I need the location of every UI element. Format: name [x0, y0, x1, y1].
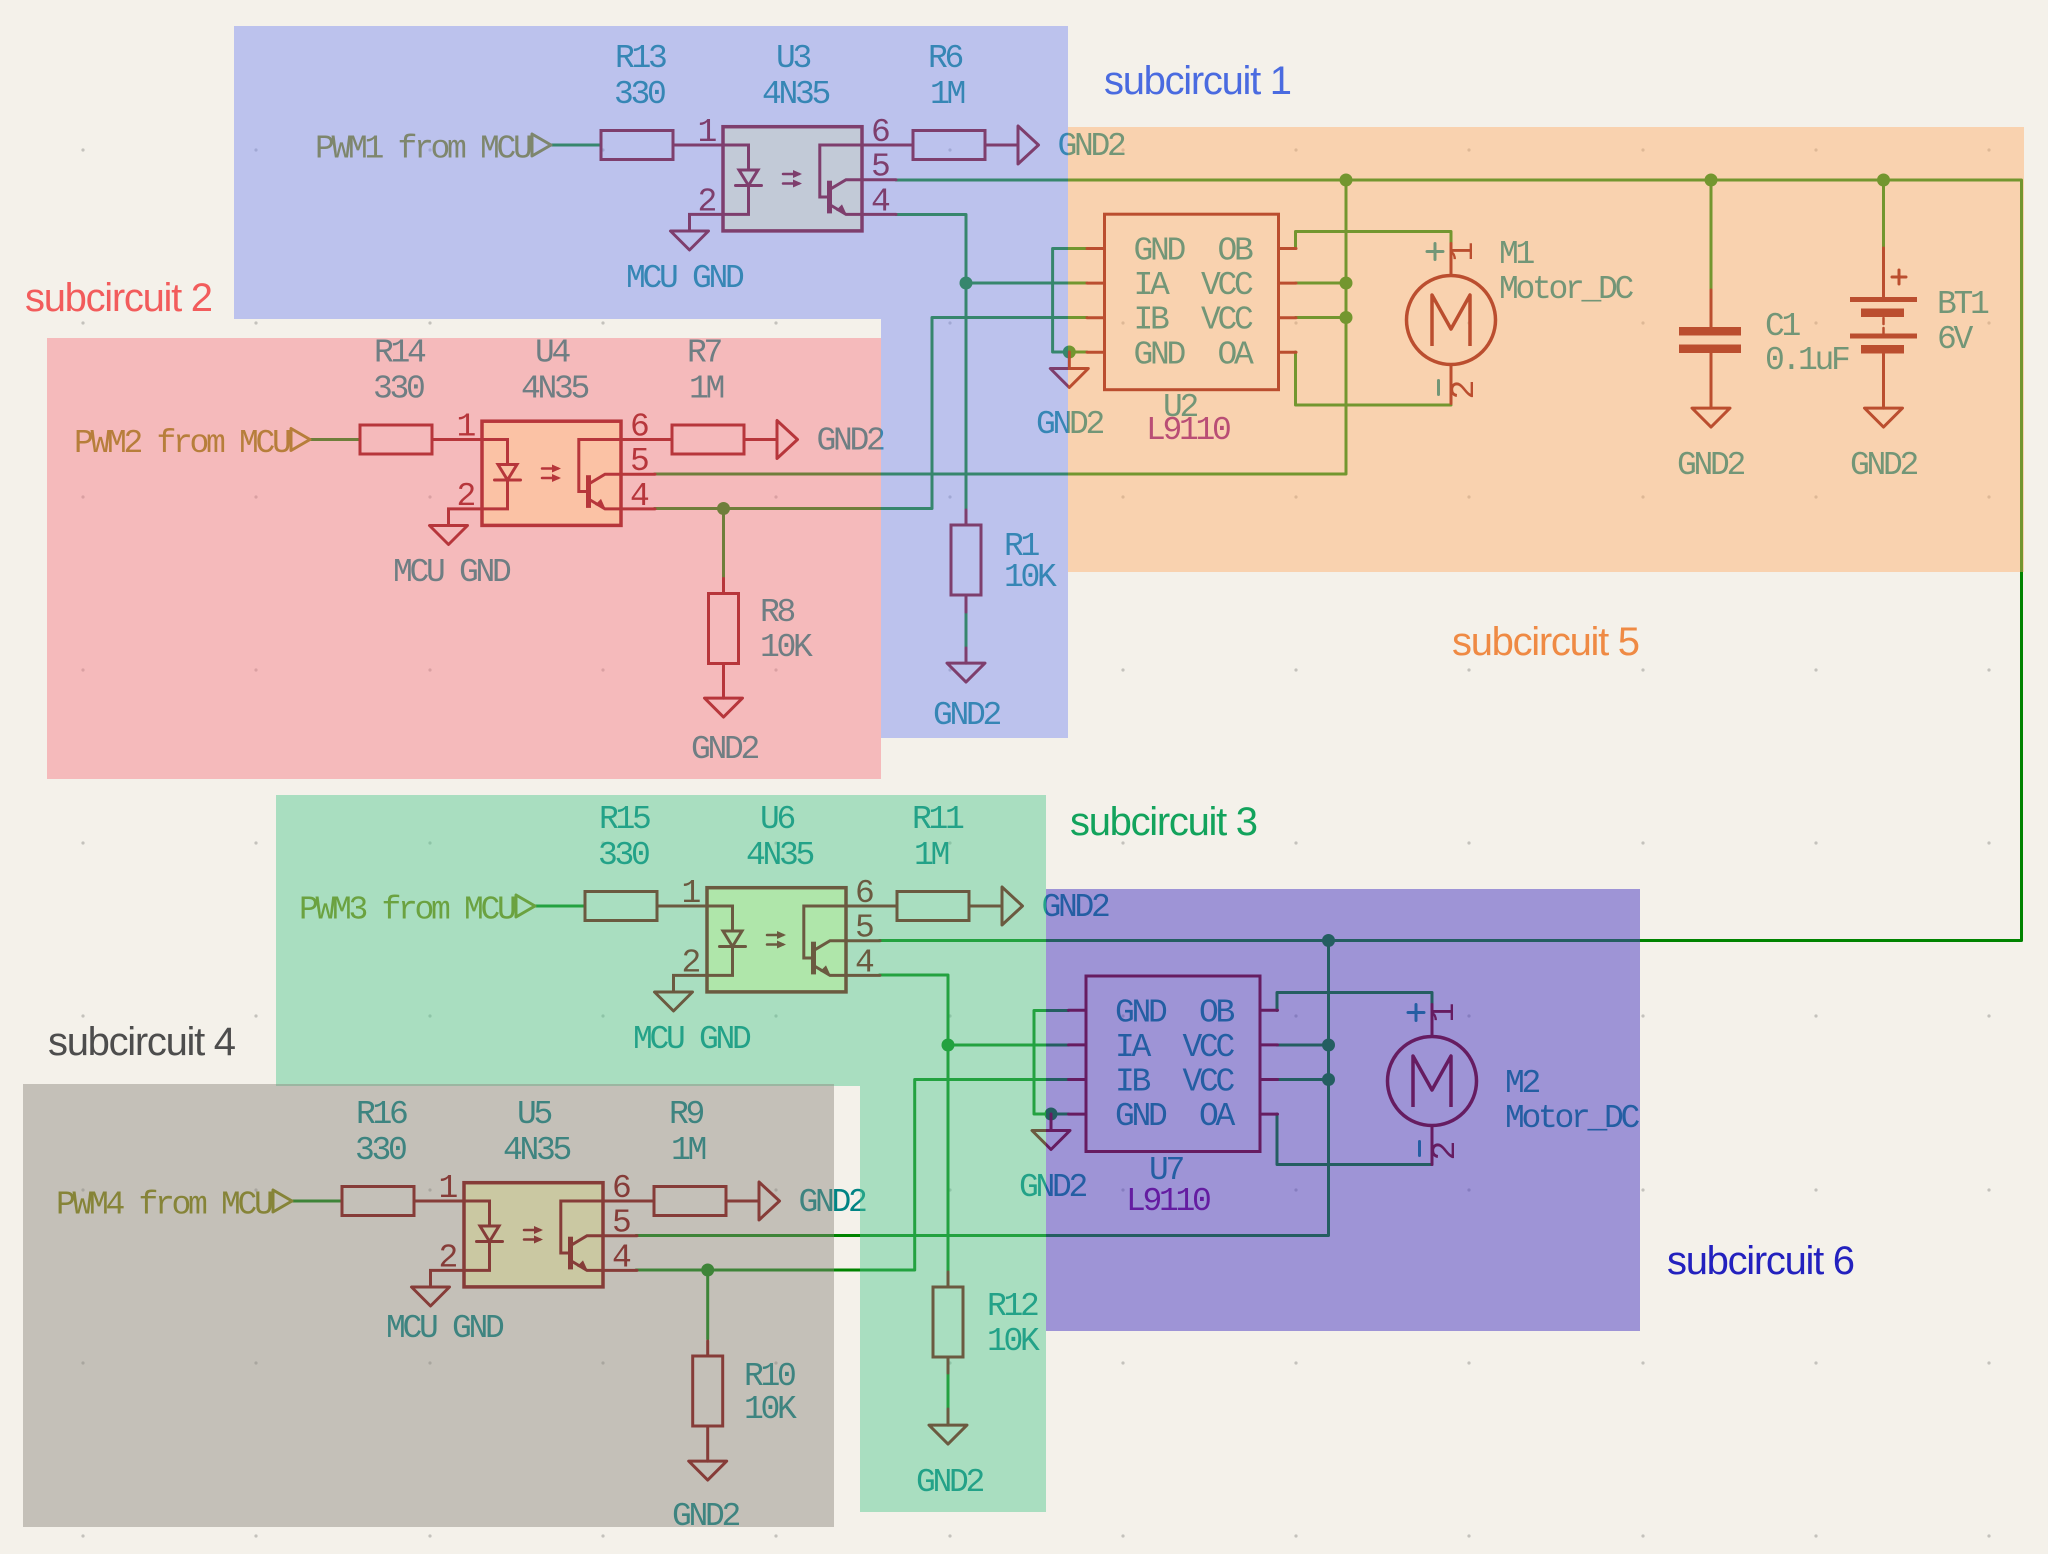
- U3 pin 2 wire to MCU GND: [690, 214, 724, 231]
- wire U3 pin4 to U2 IA and R1: [896, 215, 966, 511]
- wire U4 pin4 to R8 junction then U2 IB: [655, 318, 1088, 509]
- R12 bottom pin: [947, 1357, 950, 1373]
- junction U2 GND/GND2: [1063, 346, 1076, 359]
- junction 6V/VCC branch 2: [1322, 934, 1335, 947]
- R10 bottom pin: [706, 1426, 709, 1461]
- capacitor C1 0.1uF: [1679, 290, 1849, 408]
- wire U5 pin4 to R10 junction then U7 IB: [636, 1080, 1069, 1271]
- M2 pin 1 plus mark: [1408, 1005, 1424, 1021]
- optocoupler U3 4N35: [723, 40, 862, 231]
- ground GND2 below BT1: [1865, 408, 1903, 427]
- ground GND2 below R1: [947, 663, 985, 682]
- ground GND2 below C1: [1692, 408, 1730, 427]
- wire U7 VCC stub upper: [1277, 1044, 1329, 1047]
- U5 pin 5 stub: [603, 1234, 637, 1237]
- resistor R1 10K: [951, 510, 1057, 596]
- R1 bottom pin: [965, 595, 968, 612]
- U6 pin 2 wire to MCU GND: [674, 975, 708, 992]
- R12 ground pin: [947, 1409, 950, 1425]
- hierarchical label PWM2 from MCU: [74, 425, 310, 462]
- subcircuit 6 region overlay (purple): [1046, 889, 1640, 1331]
- hierarchical label GND2 output: [1002, 887, 1109, 926]
- resistor R12 10K: [933, 1272, 1040, 1360]
- ground GND2 below R10: [689, 1461, 727, 1480]
- resistor R16 330: [342, 1096, 464, 1216]
- wire VCC branch subcircuit6: U5 pin5 right and up to U7 VCC pins and 6V wire: [636, 941, 1329, 1236]
- resistor R9 1M: [603, 1096, 759, 1216]
- subcircuit 2 region overlay (pink): [47, 338, 881, 779]
- junction U7 GND/GND2: [1045, 1108, 1058, 1121]
- R8 bottom pin: [722, 664, 725, 699]
- ground GND2 below R8: [705, 698, 743, 717]
- U3 pin 5 stub: [862, 178, 896, 181]
- H-bridge IC U2 L9110: [1087, 214, 1296, 449]
- wire U7 VCC stub lower: [1277, 1078, 1329, 1081]
- wire R8 top: [722, 509, 725, 579]
- U5 pin 4 stub: [603, 1269, 637, 1272]
- junction VCC lower U7: [1322, 1073, 1335, 1086]
- hierarchical label PWM4 from MCU: [56, 1187, 292, 1224]
- wire C1 to 6V net: [1710, 180, 1713, 290]
- wire U2 VCC stub lower: [1296, 316, 1347, 319]
- wire BT1 to 6V net: [1882, 180, 1885, 248]
- wire R10 top: [706, 1270, 709, 1339]
- optocoupler U6 4N35: [707, 801, 846, 992]
- wire U2 OA to motor M1 pin 2: [1296, 352, 1452, 405]
- motor M1 Motor_DC: [1407, 244, 1496, 404]
- subcircuit 4 region overlay (gray): [23, 1084, 834, 1527]
- optocoupler U4 4N35: [482, 335, 621, 526]
- junction U5 pin4/R10: [701, 1264, 714, 1277]
- wire U7 OB to motor M2 pin 1: [1277, 993, 1432, 1011]
- R1 ground pin: [965, 648, 968, 663]
- ground GND2 below U7: [1032, 1114, 1070, 1150]
- wire VCC branch subcircuit5: from 6V net down to U2 VCC pins and U4 pin5: [655, 180, 1347, 474]
- svg-text:subcircuit 4: subcircuit 4: [48, 1020, 236, 1064]
- svg-text:subcircuit 2: subcircuit 2: [25, 276, 212, 320]
- junction 6V/C1: [1705, 174, 1718, 187]
- subcircuit 1 region overlay (blue): [234, 26, 1068, 738]
- wire U2 VCC stub upper: [1296, 282, 1347, 285]
- M1 pin 2 minus mark: [1437, 381, 1440, 395]
- wire R1 bottom to GND2: [965, 612, 968, 648]
- wire PWM4 port to R16: [292, 1200, 342, 1203]
- subcircuit 3 region overlay (green): [276, 795, 1046, 1512]
- junction 6V/VCC branch: [1340, 174, 1353, 187]
- U4 pin 2 wire to MCU GND: [449, 509, 483, 526]
- ground MCU GND: [671, 231, 709, 250]
- U4 pin 4 stub: [621, 507, 655, 510]
- wire PWM1 port to R13: [551, 144, 601, 147]
- wire U2 OB to motor M1 pin 1: [1296, 232, 1452, 249]
- H-bridge IC U7 L9110: [1069, 976, 1278, 1220]
- junction VCC upper U7: [1322, 1039, 1335, 1052]
- junction U4 pin4/R8: [717, 502, 730, 515]
- M2 pin 2 minus mark: [1418, 1142, 1421, 1156]
- wire U2 GND pins tie: [1053, 249, 1087, 353]
- wire PWM2 port to R14: [310, 438, 360, 441]
- wire U7 GND pins tie: [1034, 1011, 1069, 1115]
- svg-text:subcircuit 6: subcircuit 6: [1667, 1239, 1854, 1283]
- wire PWM3 port to R15: [535, 905, 585, 908]
- U4 pin 5 stub: [621, 473, 655, 476]
- U6 pin 5 stub: [846, 939, 880, 942]
- resistor R15 330: [585, 801, 707, 921]
- svg-text:subcircuit 5: subcircuit 5: [1452, 620, 1639, 664]
- junction VCC upper U2: [1340, 277, 1353, 290]
- resistor R8 10K: [709, 579, 814, 667]
- resistor R13 330: [601, 40, 723, 160]
- junction IA/R12 net: [942, 1039, 955, 1052]
- wire U6 pin4 to U7 IA and R12: [880, 975, 949, 1271]
- M1 pin 1 plus mark: [1427, 244, 1443, 260]
- wire R12 bottom to GND2: [947, 1373, 950, 1409]
- wire U7 OA to motor M2 pin 2: [1277, 1114, 1432, 1165]
- hierarchical label GND2 output: [1018, 126, 1125, 165]
- hierarchical label PWM1 from MCU: [315, 131, 551, 168]
- resistor R7 1M: [621, 335, 777, 455]
- U5 pin 2 wire to MCU GND: [431, 1270, 465, 1287]
- ground MCU GND: [430, 525, 468, 544]
- ground MCU GND: [655, 992, 693, 1011]
- svg-text:subcircuit 1: subcircuit 1: [1104, 59, 1291, 103]
- ground GND2 below U2: [1050, 352, 1088, 388]
- optocoupler U5 4N35: [464, 1096, 603, 1287]
- resistor R11 1M: [846, 801, 1002, 921]
- junction VCC lower U2: [1340, 311, 1353, 324]
- battery BT1 6V: [1850, 248, 1989, 408]
- U6 pin 4 stub: [846, 974, 880, 977]
- motor M2 Motor_DC: [1388, 1005, 1477, 1165]
- wire U2 IA stub: [966, 282, 1087, 285]
- hierarchical label GND2 output: [759, 1182, 866, 1221]
- wire U7 IA stub: [948, 1044, 1069, 1047]
- ground MCU GND: [412, 1287, 450, 1306]
- subcircuit 5 region overlay (orange): [1068, 127, 2024, 572]
- U3 pin 4 stub: [862, 213, 896, 216]
- junction 6V/BT1: [1877, 174, 1890, 187]
- resistor R6 1M: [862, 40, 1018, 160]
- ground GND2 below R12: [929, 1425, 967, 1444]
- wire 6V net: U3 pin5 across top, down right edge, back to U6 pin5: [880, 180, 2022, 941]
- svg-text:subcircuit 3: subcircuit 3: [1070, 800, 1257, 844]
- hierarchical label GND2 output: [777, 421, 884, 460]
- resistor R14 330: [360, 335, 482, 455]
- hierarchical label PWM3 from MCU: [299, 892, 535, 929]
- junction IA/R1 net: [960, 277, 973, 290]
- resistor R10 10K: [693, 1341, 797, 1428]
